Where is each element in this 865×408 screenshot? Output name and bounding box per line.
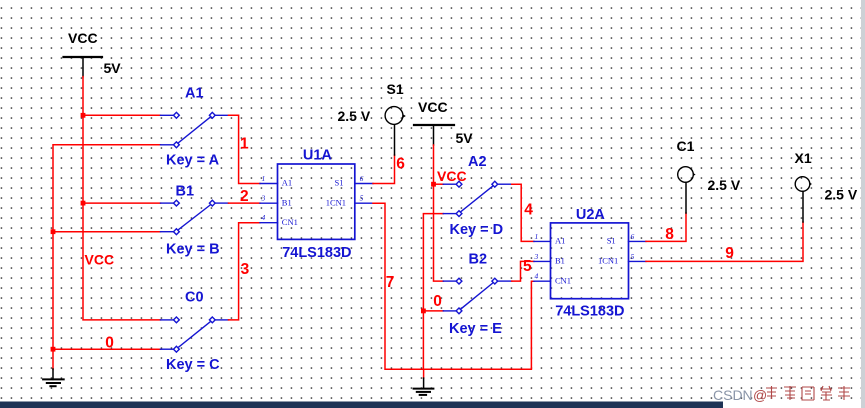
svg-text:A1: A1 — [185, 86, 204, 102]
svg-text:5: 5 — [360, 194, 364, 203]
svg-text:6: 6 — [631, 232, 635, 241]
wire VCC vertical from V1 down to switch C top — [83, 77, 161, 320]
svg-text:1: 1 — [240, 135, 249, 152]
svg-text:1: 1 — [535, 232, 539, 241]
svg-text:Key = A: Key = A — [166, 153, 220, 169]
probe S1 lead — [394, 125, 396, 155]
svg-text:4: 4 — [524, 201, 533, 218]
switch J2 (Key = B) — [161, 200, 229, 234]
svg-text:Key = B: Key = B — [166, 242, 220, 258]
svg-text:S1: S1 — [607, 236, 616, 246]
svg-text:0: 0 — [433, 293, 442, 310]
wire branch to switch E bottom (net 0) — [423, 310, 443, 312]
VCC symbol V1 top-left — [64, 57, 103, 77]
svg-text:X1: X1 — [795, 150, 812, 166]
svg-text:Key = D: Key = D — [450, 222, 504, 238]
svg-text:B1: B1 — [282, 197, 292, 207]
ground GND2 — [423, 369, 425, 378]
svg-text:S1: S1 — [387, 81, 404, 97]
wire ground-bus right: switch D bottom to bottom bus — [423, 214, 443, 370]
switch J4 (Key = D) — [443, 181, 512, 216]
svg-text:8: 8 — [665, 226, 674, 243]
svg-text:5: 5 — [631, 252, 635, 261]
chip U1A box — [278, 164, 355, 239]
probe C1 lead — [685, 182, 687, 213]
svg-text:A1: A1 — [555, 236, 565, 246]
wire net 9: U2A 1CN1 to probe X1 — [646, 222, 803, 261]
bottom taskbar sliver — [0, 402, 723, 408]
svg-text:6: 6 — [396, 156, 405, 173]
svg-text:1CN1: 1CN1 — [598, 256, 618, 266]
wire net 5: switch E common to U2A pin B1 — [512, 261, 534, 281]
switch J1 (Key = A) — [161, 112, 229, 147]
svg-text:U2A: U2A — [576, 207, 606, 223]
svg-text:A1: A1 — [282, 178, 292, 188]
svg-text:VCC: VCC — [437, 168, 467, 184]
switch J3 (Key = C) — [161, 317, 229, 352]
wire VCC2 vertical down to switch E top — [434, 145, 444, 281]
svg-text:1CN1: 1CN1 — [326, 197, 346, 207]
svg-text:S1: S1 — [335, 178, 344, 188]
svg-text:A2: A2 — [468, 154, 487, 170]
svg-text:6: 6 — [360, 174, 364, 183]
svg-text:C0: C0 — [185, 290, 204, 306]
svg-text:VCC: VCC — [418, 99, 448, 115]
junction ground-bus / switch C bottom — [51, 347, 56, 352]
svg-text:VCC: VCC — [68, 30, 98, 46]
svg-text:VCC: VCC — [85, 252, 115, 268]
probe X1 arrow nub — [810, 182, 813, 185]
wire VCC branch to switch A top — [83, 114, 161, 116]
svg-text:CN1: CN1 — [282, 217, 298, 227]
probe C1 arrow nub — [693, 173, 696, 176]
wire branch to switch B bottom — [53, 231, 161, 233]
svg-text:9: 9 — [725, 245, 734, 262]
svg-text:C1: C1 — [677, 138, 695, 154]
wire net 7: U1A 1CN1 down along bottom to U2A CN1 — [373, 203, 534, 369]
svg-text:0: 0 — [105, 335, 114, 352]
svg-text:CN1: CN1 — [555, 275, 571, 285]
svg-text:U1A: U1A — [303, 148, 333, 164]
wire branch to switch C bottom (net 0) — [53, 348, 161, 350]
junction ground-bus / switch E bottom — [421, 309, 426, 314]
wire net 4: switch D common to U2A pin A1 — [512, 184, 534, 241]
junction VCC2 / switch D — [431, 182, 436, 187]
wire net 3: switch C common to U1A pin CN1 — [229, 223, 261, 320]
wire net 6: U1A S1 to probe S1 — [373, 155, 395, 184]
svg-text:2: 2 — [240, 188, 249, 205]
svg-text:5V: 5V — [456, 130, 474, 146]
svg-text:2.5 V: 2.5 V — [825, 187, 858, 203]
probe S1 circle — [385, 107, 403, 125]
probe X1 circle — [795, 177, 810, 192]
wire net 1: switch A common to U1A pin A1 — [229, 115, 261, 183]
wire VCC branch to switch B top — [83, 202, 161, 204]
chip U2A box — [551, 223, 629, 299]
wire net 2: switch B common to U1A pin B1 — [229, 202, 261, 204]
svg-text:B2: B2 — [469, 252, 488, 268]
svg-text:5V: 5V — [104, 60, 122, 76]
junction VCC / switch A — [81, 113, 86, 118]
U2A pin stubs — [534, 241, 646, 281]
svg-text:3: 3 — [534, 252, 539, 261]
svg-text:B1: B1 — [555, 256, 565, 266]
svg-text:4: 4 — [535, 272, 539, 281]
junction VCC / switch B — [81, 201, 86, 206]
svg-text:4: 4 — [262, 213, 266, 222]
probe X1 lead — [802, 191, 804, 222]
wire ground-bus left: from switch A bottom wire down to ground — [53, 145, 161, 370]
switch J5 (Key = E) — [443, 278, 512, 314]
svg-text:B1: B1 — [176, 183, 195, 199]
svg-text:3: 3 — [261, 194, 266, 203]
svg-text:74LS183D: 74LS183D — [282, 245, 351, 261]
U1A pin stubs — [260, 184, 373, 223]
svg-text:2.5 V: 2.5 V — [708, 177, 741, 193]
svg-text:CSDN: CSDN — [713, 387, 753, 403]
ground GND1 — [43, 369, 64, 386]
svg-text:3: 3 — [241, 261, 250, 278]
svg-text:7: 7 — [386, 274, 395, 291]
probe S1 arrow nub — [403, 114, 406, 117]
svg-text:1: 1 — [262, 174, 266, 183]
right edge strip — [861, 0, 865, 408]
svg-text:5: 5 — [523, 258, 532, 275]
svg-text:2.5 V: 2.5 V — [338, 108, 371, 124]
svg-text:Key = E: Key = E — [449, 321, 502, 337]
svg-text:Key = C: Key = C — [166, 357, 220, 373]
probe C1 circle — [678, 167, 694, 183]
watermark CSDN @xiaofu — [713, 386, 850, 403]
wire net 8: U2A S1 to probe C1 — [646, 213, 686, 241]
wire VCC2 branch to switch D top — [434, 183, 444, 185]
VCC symbol V2 — [414, 125, 454, 145]
svg-text:@: @ — [753, 387, 767, 403]
junction ground-bus / switch B bottom — [51, 229, 56, 234]
svg-text:74LS183D: 74LS183D — [555, 304, 624, 320]
